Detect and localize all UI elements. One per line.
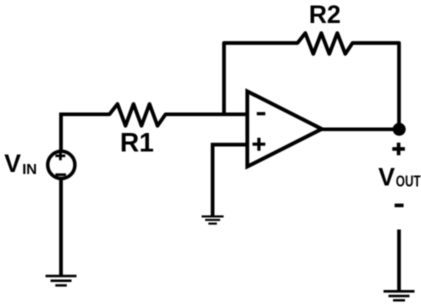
svg-text:V: V [378,163,395,191]
svg-text:R1: R1 [120,128,154,158]
svg-text:OUT: OUT [396,174,421,191]
svg-text:R2: R2 [309,1,341,29]
svg-text:V: V [4,150,21,178]
svg-text:IN: IN [22,162,37,178]
